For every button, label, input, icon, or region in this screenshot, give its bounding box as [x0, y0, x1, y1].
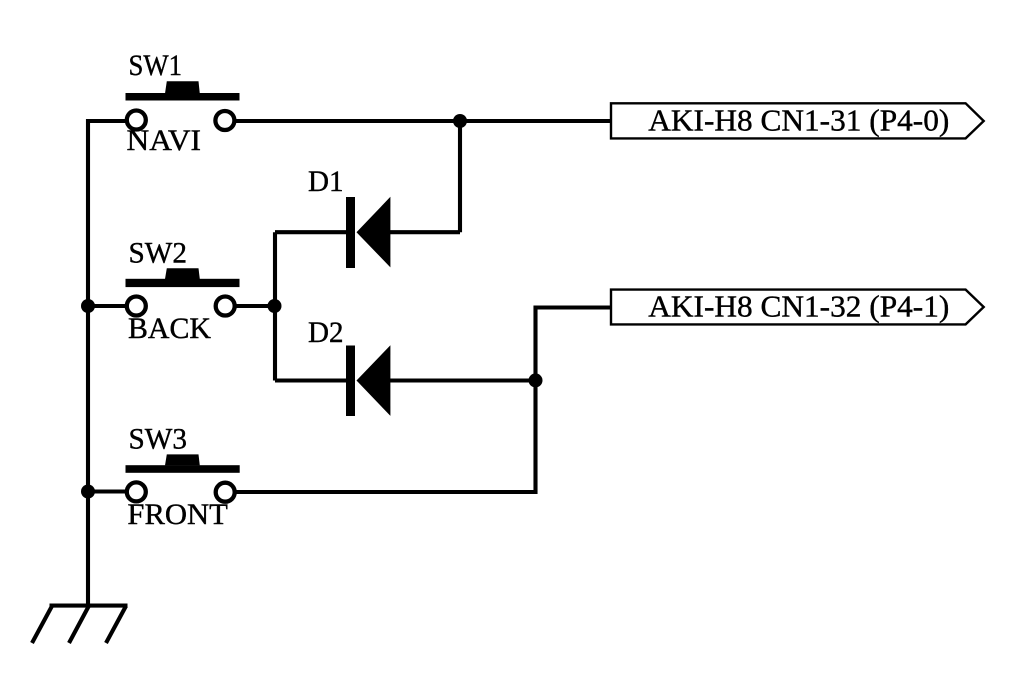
wire D1 cathode side	[275, 230, 348, 234]
diode D2 cathode bar	[346, 346, 355, 417]
wire D2 cathode side	[275, 378, 348, 382]
switch SW1 right contact	[215, 111, 234, 130]
node SW2/diode branch junction	[268, 299, 282, 313]
switch SW3 left contact	[127, 482, 146, 501]
switch SW2 right contact	[216, 297, 235, 316]
diode D2 anode triangle	[357, 345, 391, 416]
switch SW1 body bar	[126, 93, 240, 101]
ground slash 1	[32, 606, 52, 643]
switch SW2 body bar	[126, 279, 240, 287]
svg-text:NAVI: NAVI	[127, 124, 202, 157]
switch SW3 button cap	[165, 454, 200, 465]
svg-text:AKI-H8 CN1-31 (P4-0): AKI-H8 CN1-31 (P4-0)	[648, 103, 949, 138]
svg-text:AKI-H8 CN1-32 (P4-1): AKI-H8 CN1-32 (P4-1)	[648, 289, 949, 324]
svg-text:BACK: BACK	[128, 312, 211, 345]
wire left bus (SW1 corner down to ground)	[88, 121, 126, 607]
node SW2 bus junction	[81, 299, 95, 313]
ground slash 3	[106, 606, 126, 643]
wire SW1 output to CN1-31 flag	[234, 119, 610, 123]
switch SW3 right contact	[216, 483, 235, 502]
svg-text:D1: D1	[308, 165, 344, 198]
switch SW2 left contact	[127, 297, 146, 316]
node SW1/D1 junction	[453, 114, 467, 128]
connector flag AKI-H8 CN1-32	[611, 290, 984, 325]
svg-text:SW1: SW1	[129, 49, 183, 82]
wire D2 anode side to CN1-32 riser	[390, 378, 536, 382]
wire SW3 bus to left contact	[88, 489, 126, 493]
switch SW1 left contact	[127, 111, 146, 130]
connector flag AKI-H8 CN1-31	[611, 103, 984, 138]
node SW3 bus junction	[81, 485, 95, 499]
switch SW3 body bar	[126, 465, 240, 473]
diode D1 anode triangle	[357, 197, 391, 268]
wire SW2 output to diode branch	[235, 304, 275, 308]
ground bar	[50, 604, 128, 608]
node D2/riser junction	[529, 373, 543, 387]
diode D1 cathode bar	[346, 197, 355, 268]
wire SW2 bus to left contact	[88, 304, 126, 308]
wire D1 riser to SW1 output	[458, 121, 462, 232]
svg-text:SW3: SW3	[129, 423, 188, 456]
ground slash 2	[69, 606, 89, 643]
svg-text:FRONT: FRONT	[127, 498, 227, 531]
wire CN1-32 riser and SW3 output run	[235, 308, 610, 493]
svg-text:D2: D2	[308, 316, 344, 349]
switch SW1 button cap	[165, 81, 200, 93]
wire diode branch vertical (D1 to D2)	[273, 232, 277, 380]
svg-text:SW2: SW2	[129, 237, 188, 270]
wire D1 anode side	[390, 230, 460, 234]
switch SW2 button cap	[165, 268, 200, 279]
